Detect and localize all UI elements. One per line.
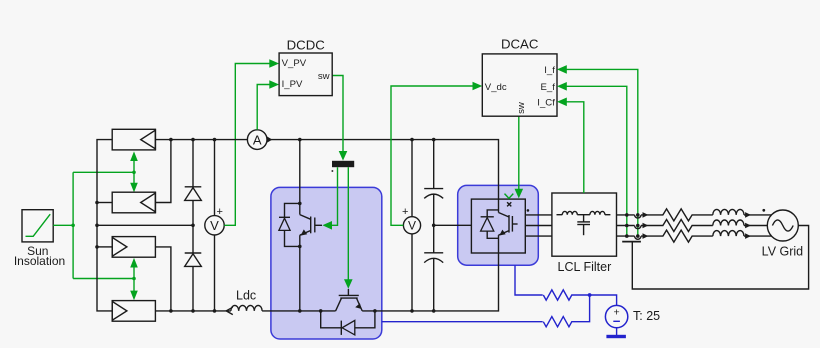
PV module PV4 xyxy=(112,301,155,322)
inductor Ldc xyxy=(226,305,262,314)
label: x mark on inverter icon xyxy=(507,202,511,206)
controller block DCDC xyxy=(279,53,332,96)
wire: neutral return to grid xyxy=(632,226,808,290)
junction: diode column xyxy=(191,224,195,228)
node: phase marker dot xyxy=(527,209,530,212)
highlight box: boost converter subsystem xyxy=(271,187,382,339)
inductor Lg2 xyxy=(713,220,768,228)
voltmeter V_PV xyxy=(205,140,224,311)
label: DCDC xyxy=(287,38,326,53)
svg-text:+: + xyxy=(614,306,620,318)
junction: top rail xyxy=(169,138,435,142)
label: DCAC xyxy=(501,37,539,52)
svg-text:T: 25: T: 25 xyxy=(633,309,660,323)
inverter icon: IGBT with diode xyxy=(481,199,518,253)
wire: V_PV measurement to DCDC xyxy=(224,59,279,225)
bypass diode D2 xyxy=(185,225,202,311)
LCL filter icon: inductor-capacitor-inductor xyxy=(557,211,611,235)
svg-text:Ldc: Ldc xyxy=(236,288,256,302)
voltmeter V_dc xyxy=(402,140,421,311)
wire: V_dc measurement to DCAC xyxy=(391,82,482,226)
wire: phase A line with probe xyxy=(617,212,664,218)
diode D4 (anti-parallel with Q2) xyxy=(321,311,375,335)
ammeter I_PV xyxy=(247,130,272,150)
resistor Rg2 xyxy=(663,220,713,232)
node: measurement star point bar xyxy=(622,241,641,243)
junction: left bus taps xyxy=(95,201,99,249)
label: LCL Filter xyxy=(558,260,612,274)
junction: E_f voltage taps xyxy=(625,213,629,238)
wire: irradiance arrows into PV3/PV4 xyxy=(130,258,138,300)
inductor Lg3 xyxy=(713,231,772,239)
node: grid phase marker dot xyxy=(762,209,765,212)
svg-text:LCL Filter: LCL Filter xyxy=(558,260,612,274)
wire: DC midpoint to inverter xyxy=(434,224,472,226)
wire: thermal node to ambient source xyxy=(590,295,617,305)
wire: E_f feedback to DCAC xyxy=(557,82,627,236)
inverter inner block U2 xyxy=(471,199,525,253)
wire: insolation signal from sun block xyxy=(53,172,134,278)
svg-text:I_f: I_f xyxy=(544,65,555,76)
wire: sw gate signal DCAC to inverter xyxy=(515,116,524,198)
wire: gate signal to Q1 xyxy=(322,167,337,229)
PV module PV1 xyxy=(112,129,155,150)
highlight box: DCAC inverter subsystem xyxy=(458,185,539,265)
wire: DC+ top rail xyxy=(155,140,498,200)
voltage source LV Grid xyxy=(767,210,798,241)
svg-text:sw: sw xyxy=(516,102,527,114)
PV module PV3 xyxy=(112,237,155,258)
svg-text:+: + xyxy=(402,206,408,218)
wire: DC- bottom rail left of Ldc xyxy=(155,310,231,312)
resistor Rth1 (thermal) xyxy=(543,290,589,300)
svg-text:Insolation: Insolation xyxy=(14,254,65,268)
label: LV Grid xyxy=(762,244,803,258)
wire: I_f feedback to DCAC xyxy=(557,65,638,236)
controller block DCAC xyxy=(482,54,557,116)
svg-text:I_PV: I_PV xyxy=(282,79,303,90)
svg-text:I_Cf: I_Cf xyxy=(537,98,555,109)
bypass diode D1 xyxy=(185,140,202,226)
svg-text:sw: sw xyxy=(318,71,330,82)
wire: thermal from boost box xyxy=(382,321,543,323)
thermal ground xyxy=(606,335,626,338)
junction: Q1 collector/emitter nodes xyxy=(298,202,302,313)
svg-text:V: V xyxy=(408,219,416,233)
capacitor C2 (lower DC-link) xyxy=(424,225,443,311)
label: Ldc xyxy=(236,288,256,302)
label: Sun Insolation xyxy=(14,244,65,268)
resistor Rth2 (thermal) xyxy=(543,295,589,327)
wire: phase C line with probe xyxy=(617,233,664,239)
junction: bottom rail xyxy=(169,309,435,313)
wire: left PV bus xyxy=(97,140,112,311)
svg-text:+: + xyxy=(216,206,222,218)
node: gate input chevron on inverter xyxy=(505,194,514,199)
transistor Q1 (boost IGBT, upper) collector lead xyxy=(299,140,301,215)
wire: I_Cf feedback to DCAC xyxy=(557,98,584,194)
LCL Filter block xyxy=(552,193,617,256)
wire: PV3 to bottom rail xyxy=(155,247,171,311)
wire: inverter AC phase outputs xyxy=(525,215,552,236)
wire: sw gate signal DCDC to demux xyxy=(332,76,347,161)
capacitor C1 (upper DC-link) xyxy=(424,140,443,226)
PV module PV2 xyxy=(112,192,155,213)
svg-text:LV Grid: LV Grid xyxy=(762,244,803,258)
wire: gate signal to Q2 xyxy=(344,167,353,289)
junction: I_f current probes xyxy=(636,213,640,238)
wire: phase B line with probe xyxy=(617,223,664,229)
svg-text:A: A xyxy=(253,132,262,147)
sun insolation source block xyxy=(22,210,53,242)
label: T: 25 xyxy=(633,309,660,323)
transistor Q2 (boost IGBT, lower, rotated) xyxy=(336,289,363,311)
svg-text:E_f: E_f xyxy=(540,82,555,93)
svg-text:DCDC: DCDC xyxy=(287,38,326,53)
svg-text:V_dc: V_dc xyxy=(485,82,507,93)
junction: insolation net xyxy=(71,171,136,281)
diode D3 (anti-parallel with Q1) xyxy=(279,203,300,246)
wire: thermal from inverter xyxy=(515,265,543,295)
junction: thermal node xyxy=(588,293,592,297)
svg-text:V_PV: V_PV xyxy=(282,58,307,69)
wire: I_PV measurement to DCDC xyxy=(257,80,279,130)
resistor Rg3 xyxy=(663,230,713,242)
svg-text:DCAC: DCAC xyxy=(501,37,539,52)
wire: bottom rail through boost box xyxy=(262,253,498,311)
wire: PV2 to top rail xyxy=(155,140,171,203)
svg-text:V: V xyxy=(210,218,219,233)
thermal source T: 25 xyxy=(605,305,627,335)
transistor Q1 body xyxy=(300,215,322,311)
junction: Q2 terminals xyxy=(319,309,377,313)
wire: mid tie from bus to bypass diodes xyxy=(97,224,193,226)
signal demux for gate signals xyxy=(332,161,355,172)
junction: DC midpoint xyxy=(432,224,436,228)
inductor Lg1 xyxy=(713,209,772,217)
wire: irradiance arrows into PV1/PV2 xyxy=(130,151,138,192)
resistor Rg1 xyxy=(663,209,713,221)
